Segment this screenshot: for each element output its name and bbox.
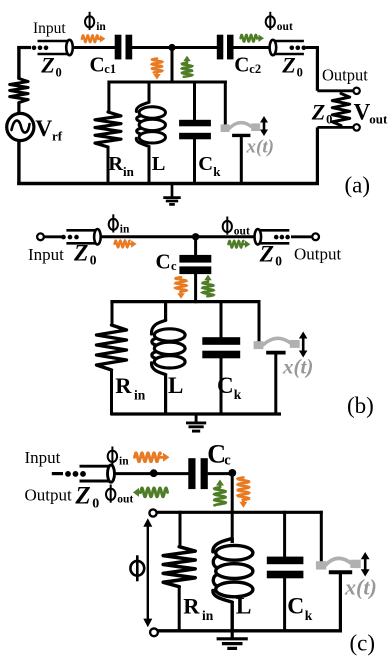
wire Rin top (c) (179, 511, 182, 548)
node output terminal (b) (312, 233, 319, 240)
wire Ck top (c) (283, 511, 286, 558)
photon down orange (c) (238, 478, 249, 508)
ground (b) (186, 414, 206, 431)
photon up green (a) (182, 56, 192, 77)
variable capacitor x(t) (c) (316, 552, 370, 632)
wire coax to junction (b) (101, 235, 196, 238)
wire left vertical (a) (17, 46, 20, 80)
wire Rin top (b) (111, 300, 114, 325)
wire coax to corner (a) (306, 46, 319, 49)
wire resonator top rail (a) (108, 81, 227, 84)
wire Cc1 to Cc2 (a) (132, 46, 217, 49)
svg-text:Output: Output (25, 486, 73, 505)
resistor Z0 source (a) (10, 79, 28, 103)
svg-text:Output: Output (322, 66, 368, 85)
wire junction to Cc (b) (194, 237, 197, 256)
svg-text:L: L (168, 373, 183, 398)
photon down orange (b) (176, 277, 187, 299)
svg-text:out: out (277, 21, 293, 33)
capacitor Ck (b) (202, 337, 240, 358)
svg-text:Output: Output (294, 245, 342, 264)
svg-text:x(t): x(t) (246, 137, 274, 158)
variable capacitor x(t) (a) (221, 116, 268, 185)
photon phi_in arrow (b) (115, 240, 137, 248)
wire junction down to L (c) (231, 473, 234, 543)
resistor Rin (c) (163, 547, 195, 587)
wire Ck bottom (c) (283, 578, 286, 633)
svg-text:in: in (96, 21, 106, 33)
resistor Rin (b) (97, 325, 127, 370)
photon phi_out arrow (c) (133, 488, 168, 497)
wire coax to terminal (b) (291, 235, 312, 238)
wire top-left stub (a) (17, 46, 31, 49)
resistor Rin (a) (95, 112, 121, 147)
wire bottom rail (b) (110, 412, 281, 415)
capacitor Cc (b) (179, 255, 211, 274)
capacitor Cc2 (217, 35, 234, 60)
label phi_out glyph (c) (106, 485, 115, 503)
wire resonator top rail (b) (110, 300, 260, 303)
wire Rin bottom (c) (178, 586, 181, 632)
photon down orange (a) (152, 59, 162, 80)
wire Cc to rail (b) (194, 273, 197, 303)
wire Rin bottom (a) (107, 146, 110, 185)
svg-text:Input: Input (28, 245, 64, 264)
svg-text:x(t): x(t) (344, 575, 377, 600)
label phi_in glyph (c) (108, 447, 117, 465)
inductor L (c) (213, 538, 253, 632)
wire right vertical to bottom rail (a) (316, 127, 319, 183)
wire xt branch (c) (320, 511, 323, 563)
capacitor Ck (a) (179, 120, 211, 140)
svg-text:Input: Input (33, 20, 66, 37)
coax connector output (b) (254, 229, 289, 244)
wire xt branch (a) (224, 81, 227, 126)
coax connector input (c) (65, 465, 114, 482)
node junction (b) (192, 233, 199, 240)
wire Cc2 to output coax (a) (233, 46, 270, 49)
svg-text:in: in (119, 455, 129, 467)
svg-text:(b): (b) (347, 393, 374, 418)
wire Rin bottom (b) (110, 370, 113, 416)
wire Vrf to bottom rail (a) (17, 141, 20, 186)
node reference (c) (150, 469, 158, 477)
svg-text:(a): (a) (345, 173, 371, 198)
photon phi_in arrow (a) (82, 35, 106, 43)
svg-text:(c): (c) (350, 631, 376, 656)
svg-text:in: in (120, 223, 130, 235)
wire Ck bottom (b) (220, 358, 223, 416)
wire junction to output coax (b) (196, 235, 255, 238)
wire Ck top (b) (220, 300, 223, 339)
svg-text:out: out (117, 493, 133, 505)
wire junction down (a) (171, 48, 174, 84)
label phi_out glyph (a) (266, 12, 275, 30)
coax connector output (a) (270, 40, 307, 55)
svg-text:x(t): x(t) (282, 355, 313, 379)
capacitor Cc1 (115, 35, 133, 60)
wire to bottom output terminal (a) (317, 126, 353, 129)
node terminal bottom (c) (150, 628, 158, 636)
wire coax to Cc1 (a) (73, 46, 115, 49)
photon up green (c) (214, 480, 225, 506)
wire bottom rail (a) (17, 182, 319, 185)
wire resonator top rail (c) (156, 511, 322, 514)
wire Z0 to Vrf (a) (17, 102, 20, 113)
label phi_in glyph (b) (109, 214, 118, 232)
inductor L (a) (136, 81, 165, 186)
ac source Vrf (7, 113, 34, 140)
node output terminal bottom (a) (353, 124, 359, 130)
photon phi_out arrow (b) (228, 240, 250, 248)
wire Rin top (a) (107, 81, 110, 114)
label phi_out glyph (b) (223, 217, 232, 235)
photon up green (b) (203, 275, 214, 297)
capacitor Cc (c) (188, 458, 208, 489)
wire Ck top (a) (193, 81, 196, 122)
ground (c) (217, 631, 248, 649)
wire coax to Cc (c) (115, 472, 189, 475)
node junction top (a) (168, 44, 175, 51)
inductor L (b) (151, 300, 185, 415)
resistor Z0 load (a) (332, 94, 349, 126)
coax connector input (a) (32, 40, 73, 55)
node phi double arrow (c) (143, 518, 152, 627)
label phi flux (c) (130, 555, 144, 581)
photon phi_in arrow (c) (135, 453, 170, 462)
wire input dash (c) (52, 472, 63, 475)
wire right vertical to Vout top (a) (316, 46, 319, 91)
wire Cc to junction (c) (208, 472, 230, 475)
node junction (c) (228, 469, 236, 477)
wire Ck bottom (a) (193, 138, 196, 185)
photon phi_out arrow (a) (241, 35, 265, 43)
coax connector input (b) (61, 229, 100, 244)
wire to top output terminal (a) (317, 89, 353, 92)
svg-text:out: out (234, 226, 250, 238)
wire xt branch (b) (258, 300, 261, 343)
svg-text:L: L (152, 153, 166, 175)
node output terminal top (a) (353, 88, 359, 94)
label phi_in glyph (a) (85, 12, 94, 30)
ground (a) (163, 184, 180, 205)
node input terminal (b) (37, 233, 44, 240)
capacitor Ck (c) (267, 557, 304, 579)
svg-text:Input: Input (25, 448, 61, 467)
variable capacitor x(t) (b) (254, 332, 308, 416)
wire terminal to coax (b) (44, 235, 63, 238)
wire bottom rail (c) (157, 629, 342, 632)
node terminal top (c) (149, 509, 156, 516)
svg-text:L: L (236, 594, 252, 620)
